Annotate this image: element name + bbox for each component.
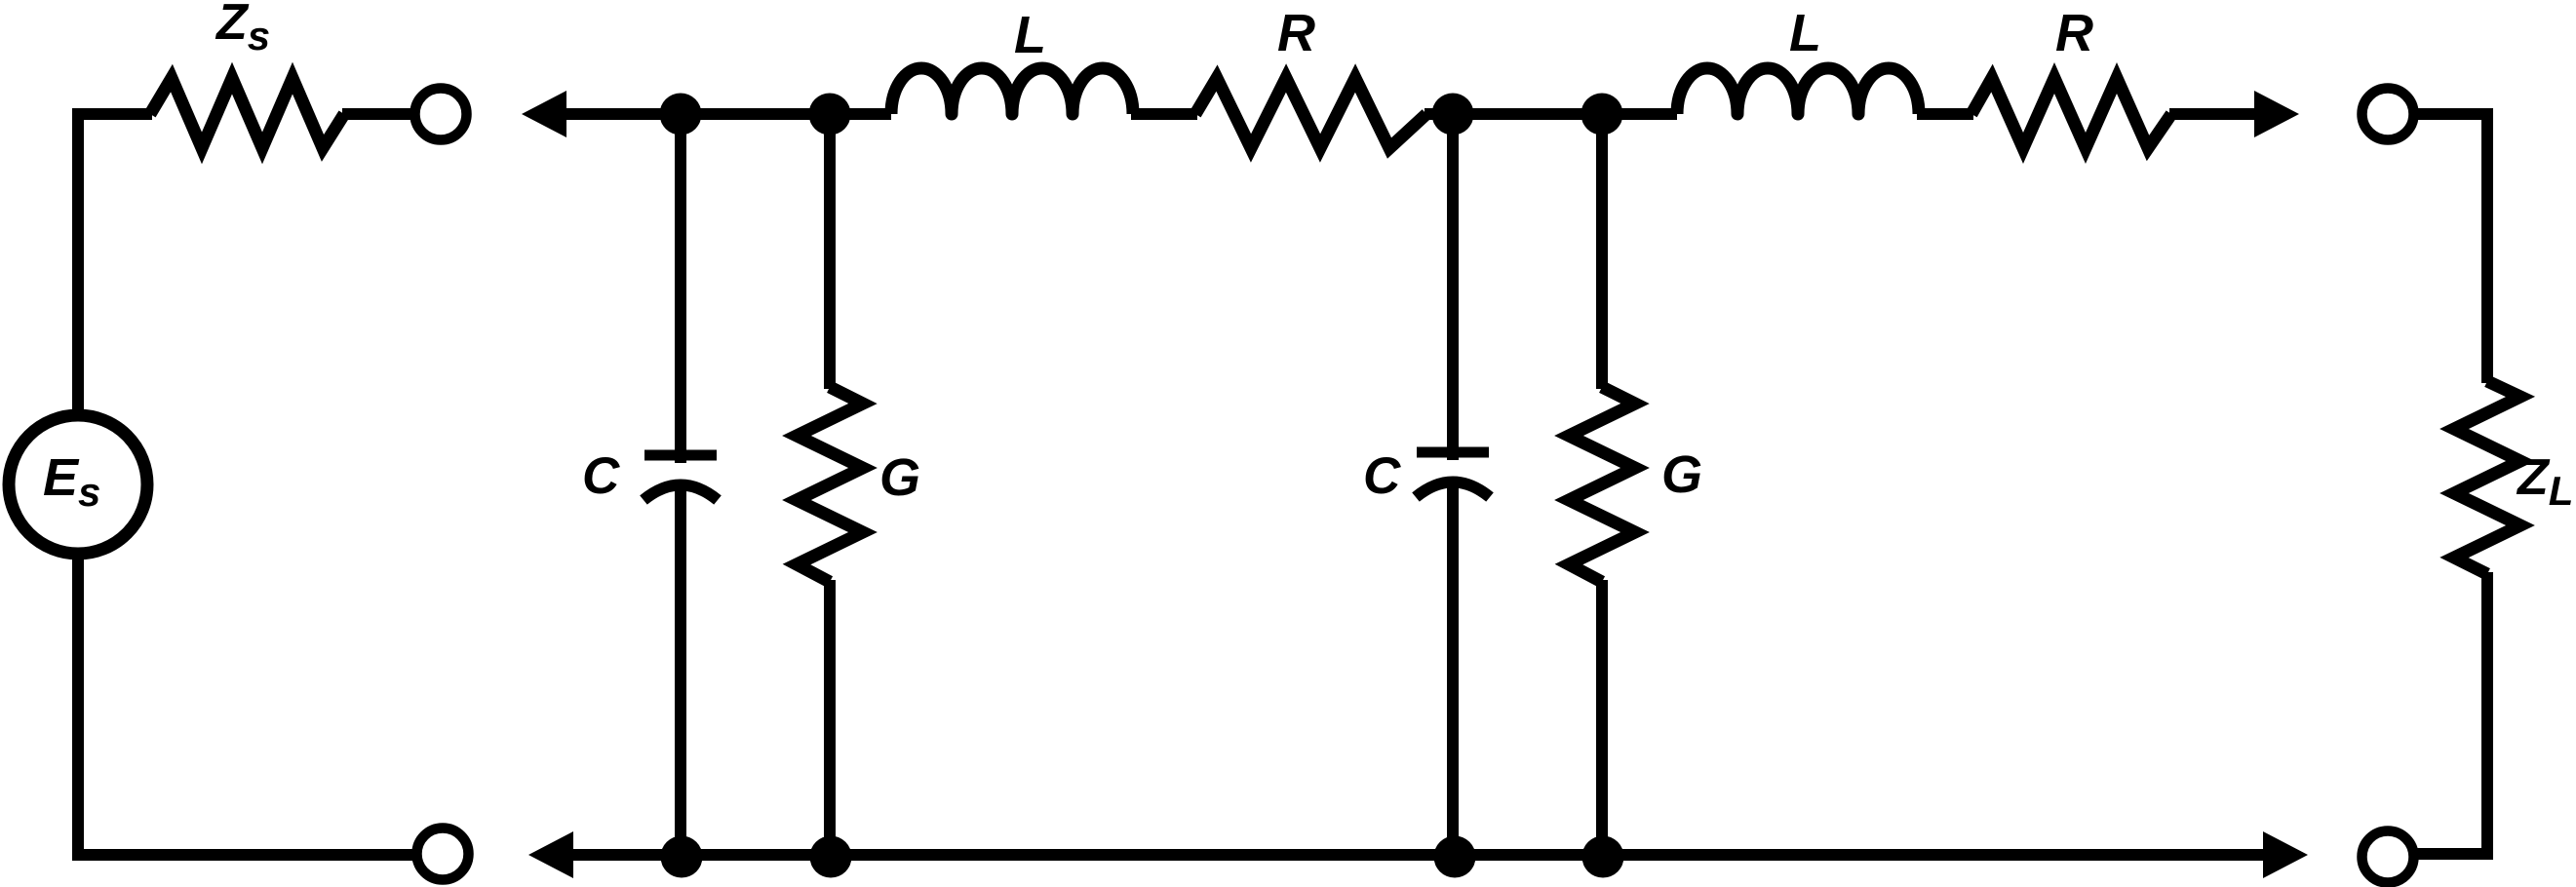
wire left vertical bottom bbox=[78, 553, 418, 855]
inductor L2 bbox=[1677, 68, 1919, 114]
svg-text:Zs: Zs bbox=[215, 0, 270, 58]
resistor Zs bbox=[150, 78, 344, 148]
wire terminal to ZL top bbox=[2417, 114, 2487, 383]
resistor G2 top lead bbox=[1596, 108, 1608, 389]
terminal top-left bbox=[415, 89, 467, 140]
svg-text:ZL: ZL bbox=[2516, 449, 2573, 514]
resistor G1 zigzag bbox=[797, 387, 863, 582]
resistor R1 bbox=[1195, 78, 1426, 148]
terminal bottom-left bbox=[417, 829, 469, 880]
capacitor C2 curved plate bbox=[1416, 482, 1490, 498]
junction node bottom 4 bbox=[1582, 836, 1624, 878]
junction node top 2 bbox=[809, 94, 851, 135]
terminal bottom-right bbox=[2362, 831, 2414, 883]
wire top rail section 2 bbox=[1425, 108, 1677, 120]
junction node bottom 1 bbox=[661, 836, 703, 878]
capacitor C2 flat plate bbox=[1417, 447, 1489, 458]
svg-text:C: C bbox=[582, 447, 620, 505]
wire L2 to R2 bbox=[1917, 108, 1973, 120]
arrow bottom-right head bbox=[2263, 831, 2308, 878]
capacitor C2 bottom lead bbox=[1447, 481, 1459, 861]
arrow top-left head bbox=[522, 91, 566, 137]
junction node top 3 bbox=[1432, 94, 1474, 135]
junction node top 4 bbox=[1581, 94, 1623, 135]
svg-text:Es: Es bbox=[43, 448, 100, 515]
svg-text:G: G bbox=[879, 448, 920, 507]
voltage source Es bbox=[9, 415, 147, 554]
arrow top-right shaft bbox=[2169, 108, 2262, 120]
junction node bottom 2 bbox=[810, 836, 852, 878]
capacitor C1 curved plate bbox=[644, 485, 718, 501]
svg-text:C: C bbox=[1363, 447, 1401, 505]
wire left vertical top (source to Zs) bbox=[78, 114, 152, 415]
svg-text:R: R bbox=[2055, 4, 2093, 62]
capacitor C2 top lead bbox=[1447, 108, 1459, 460]
capacitor C1 flat plate bbox=[644, 450, 717, 461]
svg-text:L: L bbox=[1789, 4, 1821, 62]
terminal top-right bbox=[2362, 89, 2414, 140]
wire top rail section 1 bbox=[681, 108, 891, 120]
inductor L1 bbox=[891, 68, 1133, 114]
load ZL zigzag bbox=[2454, 381, 2520, 574]
capacitor C1 bottom lead bbox=[675, 483, 686, 861]
resistor G2 zigzag bbox=[1569, 387, 1635, 582]
svg-text:R: R bbox=[1277, 4, 1315, 62]
wire L1 to R1 bbox=[1131, 108, 1197, 120]
resistor G2 bottom lead bbox=[1596, 580, 1608, 861]
arrow bottom-left head bbox=[528, 831, 573, 878]
svg-text:L: L bbox=[1014, 6, 1046, 64]
resistor G1 bottom lead bbox=[824, 580, 836, 861]
capacitor C1 top lead bbox=[675, 108, 686, 463]
arrow bottom-left shaft bbox=[569, 849, 683, 861]
wire Zs to terminal bbox=[342, 108, 411, 120]
resistor G1 top lead bbox=[824, 108, 836, 389]
arrow top-left shaft bbox=[563, 108, 683, 120]
resistor R2 bbox=[1971, 78, 2171, 148]
svg-text:G: G bbox=[1661, 445, 1702, 504]
wire bottom rail bbox=[569, 849, 2266, 861]
wire ZL bottom to terminal bbox=[2415, 572, 2487, 854]
junction node bottom 3 bbox=[1434, 836, 1476, 878]
junction node top 1 bbox=[660, 94, 702, 135]
arrow top-right head bbox=[2254, 91, 2299, 137]
